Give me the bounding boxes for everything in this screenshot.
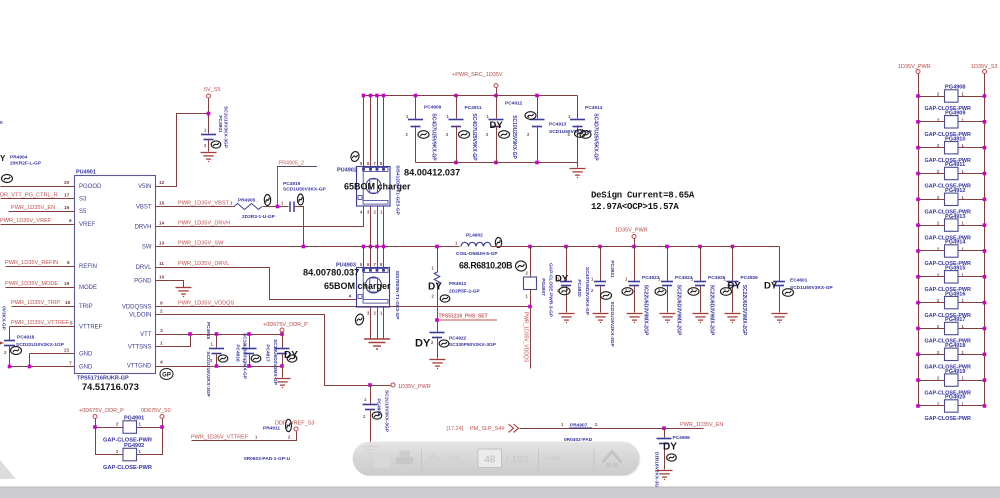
ground below PC4925 [693,314,709,323]
svg-text:6: 6 [69,218,72,224]
svg-text:PG4918: PG4918 [945,343,966,349]
svg-text:COIL-D68UH-5-GP: COIL-D68UH-5-GP [456,251,498,257]
svg-text:PWR_1D35V_DRVH: PWR_1D35V_DRVH [178,221,230,227]
svg-text:68.R6810.20B: 68.R6810.20B [459,261,512,271]
svg-text:REFIN: REFIN [79,264,97,270]
ground PGND [176,288,192,297]
svg-text:PC4919: PC4919 [283,181,301,187]
transistor Q2 PU4903 top wires from SW [363,247,365,268]
ground input cap bank [577,163,579,168]
svg-text:DDR_VREF_S3: DDR_VREF_S3 [275,421,314,427]
svg-text:2D2R5F-2-GP: 2D2R5F-2-GP [449,289,480,295]
svg-text:PC4906: PC4906 [673,435,691,441]
svg-text:PWR_1D35V_VREF: PWR_1D35V_VREF [0,218,52,224]
svg-text:84.00780.037: 84.00780.037 [303,268,359,278]
wire DRVL net [156,268,357,300]
ground PU4903 source [364,339,390,349]
svg-text:PG4916: PG4916 [945,291,966,297]
svg-text:SC22U6D3V9MX-2GP: SC22U6D3V9MX-2GP [676,285,682,336]
svg-text:5V_S5: 5V_S5 [204,87,221,93]
svg-text:DR_VTT_PG_CTRL_R: DR_VTT_PG_CTRL_R [0,193,58,199]
wire GND pin21 jog [30,353,75,355]
svg-text:Y: Y [0,154,6,163]
wire VTT rail [156,334,283,336]
node DDR_VREF_S3 [294,427,298,431]
wire VREF net [1,224,75,226]
svg-text:GAP-CLOSE-PWR: GAP-CLOSE-PWR [925,416,972,422]
svg-text:18: 18 [65,300,71,306]
component PG4919 gap-close-pwr [919,380,945,382]
capacitor PC4901 [201,135,216,140]
svg-text:20: 20 [64,180,70,186]
capacitor PC4924 [667,247,669,282]
svg-text:7: 7 [69,361,72,367]
svg-text:SC407U6D3V3KX-GP: SC407U6D3V3KX-GP [584,267,590,316]
PU4903 pin numbers [360,262,383,316]
svg-text:3: 3 [160,328,163,334]
component PG4911 gap-close-pwr [919,173,945,175]
eye marker PC4912 [499,131,510,139]
svg-text:PG4907: PG4907 [540,278,546,296]
svg-text:VTTSNS: VTTSNS [128,345,152,351]
svg-text:GP: GP [162,373,171,379]
wire S0 rail [137,419,163,455]
svg-text:PG4908: PG4908 [945,85,966,91]
capacitor PC4920 [566,247,568,282]
eye marker PL4902 [495,238,501,248]
eye marker EC4601 [783,289,794,297]
eye marker PC4916 [251,355,261,362]
wire VTTREF net [10,326,75,328]
component PG4907 gap-close-pwr [530,247,532,278]
svg-text:15: 15 [159,201,165,207]
svg-text:PWR_1D35V_SW: PWR_1D35V_SW [178,241,224,247]
svg-text:PWR_1D35V_VTTREF: PWR_1D35V_VTTREF [191,435,249,441]
eye marker PC4917 [287,355,297,362]
svg-text:74.51716.073: 74.51716.073 [82,382,139,392]
wire PC4919 to SW node [295,207,304,247]
svg-text:DY: DY [284,350,298,361]
eye marker PC4918 [11,347,22,355]
svg-text:SC330P50V2KX-3GP: SC330P50V2KX-3GP [449,342,497,348]
svg-text:PC4922: PC4922 [449,336,467,342]
eye marker PC4906 [667,454,677,461]
svg-text:GND: GND [79,365,93,371]
svg-text:PC4911: PC4911 [465,105,482,111]
svg-text:[17,24]: [17,24] [447,426,464,432]
svg-text:16: 16 [64,205,70,211]
eye marker PC4914 [580,131,591,139]
svg-text:DRVL: DRVL [136,265,153,271]
component PG4902 gap-close-pwr [123,448,137,461]
IC PU4901 TPS51716 regulator box [75,176,156,374]
wire DRVH net [156,207,364,227]
svg-text:MODE: MODE [79,285,97,291]
wire PU4902 source pins to SW [370,207,372,247]
wire DDR_P rail [96,419,124,455]
svg-text:12: 12 [159,180,165,186]
PU4901 left pin names [79,184,103,371]
capacitor PC4926 [732,247,734,282]
svg-text:PC4920: PC4920 [576,279,582,297]
eye marker PC4921 [601,292,612,300]
svg-text:PC4917: PC4917 [265,344,271,362]
svg-text:SCD22U10V2KX-1GP: SCD22U10V2KX-1GP [16,342,65,348]
wire PR4905 to PC4919 [263,206,289,208]
ground below PC4901 [201,153,217,162]
PU4902 pin numbers [360,161,383,215]
svg-text:4: 4 [160,360,163,366]
toolbar minus icon [545,457,561,460]
svg-text:4: 4 [349,294,352,300]
svg-text:SC22U6D3V9MX-2GP: SC22U6D3V9MX-2GP [709,285,715,336]
capacitor EC4601 [779,247,781,282]
svg-text:PWR_1D35V_EN: PWR_1D35V_EN [680,422,723,428]
wire PGND to ground [156,281,184,288]
component PG4909 gap-close-pwr [919,121,945,123]
svg-text:EC4601: EC4601 [790,278,808,284]
eye marker PC4919 [298,194,304,205]
junction dots output rail [435,245,439,249]
svg-text:SC4D7U25V5KX-GP: SC4D7U25V5KX-GP [593,113,599,161]
svg-text:GAP-CLOSE-PWR-3-GP: GAP-CLOSE-PWR-3-GP [548,263,554,318]
eye marker PR4905 [264,195,270,206]
svg-text:5: 5 [70,321,73,327]
svg-text:PC4916: PC4916 [235,344,241,362]
wire S5 net PWR_1D35V_EN [9,211,75,213]
wire VDDQSNS net [156,306,531,308]
component PG4908 gap-close-pwr [919,96,945,98]
svg-text:SCD1U16V2KX-3GP: SCD1U16V2KX-3GP [609,301,615,347]
ground below PC4926 [725,314,741,323]
svg-text:84.00412.037: 84.00412.037 [404,168,460,178]
svg-text:PG4919: PG4919 [945,369,966,375]
wire V5IN to 5V_S5 [156,114,209,187]
ground below PC4924 [660,314,676,323]
svg-text:PC4913: PC4913 [549,122,567,128]
svg-text:PR4912: PR4912 [449,281,467,287]
eye marker PR4912 [440,295,450,302]
wire 1D35V_S3 rail right [984,74,986,407]
toolbar arrow up icon [428,455,440,461]
eye marker PC4909 [418,131,429,139]
svg-text:8: 8 [67,260,70,266]
svg-text:20KR2F-L-GP: 20KR2F-L-GP [10,161,42,167]
svg-text:TPS51216_PHS_SET: TPS51216_PHS_SET [439,314,488,320]
page corner mark bottom left [0,460,16,479]
svg-text:TRIP: TRIP [79,304,93,310]
eye marker PC4925 [688,288,699,296]
svg-text:PR4911: PR4911 [263,426,280,432]
svg-text:DY: DY [764,281,778,292]
svg-text:PG4911: PG4911 [945,162,965,168]
svg-text:21: 21 [64,348,70,354]
svg-text:SW: SW [142,245,152,251]
PU4903 source wires to ground [370,308,372,339]
capacitor PC4919 bootstrap [290,202,294,213]
eye marker PC4911 [459,131,470,139]
svg-text:PG4902: PG4902 [124,443,144,449]
svg-text:PR4904: PR4904 [10,155,28,161]
svg-text:DY: DY [728,281,742,292]
junction SW bootstrap [302,245,306,249]
svg-text:GND: GND [79,352,93,358]
toolbar printer icon [396,451,413,470]
capacitor PC4916 [249,335,251,348]
toolbar divider 1 [421,449,423,469]
toolbar home icon [603,452,622,468]
svg-text:PU4902: PU4902 [337,168,357,174]
svg-text:SC10U6D3V3MX-GP: SC10U6D3V3MX-GP [242,333,248,380]
svg-text:1D35V_PWR: 1D35V_PWR [615,228,648,234]
capacitor PC4922 [437,321,439,332]
svg-text:VTTGND: VTTGND [127,364,152,370]
wire input bottom rail [416,162,578,164]
svg-text:PWR_1D35V_EN: PWR_1D35V_EN [11,205,55,211]
svg-text:2D2R3-1-U-GP: 2D2R3-1-U-GP [242,214,276,220]
svg-text:SC1U10V3KX-3GP: SC1U10V3KX-3GP [384,390,390,433]
svg-text:SIS412DN-T1-GE3-GP: SIS412DN-T1-GE3-GP [395,165,401,215]
node 5V_S5 [207,94,211,98]
toolbar plus icon [566,453,578,465]
eye marker PC4915 [218,355,228,362]
wire PGOOD net [1,186,75,188]
eye marker PC4926 [721,288,732,296]
eye marker PC4923 [622,288,633,296]
eye marker PC4924 [655,288,666,296]
svg-text:DY: DY [490,120,504,131]
junction dots SW at FET pins [362,245,366,249]
svg-text:PGOOD: PGOOD [79,184,102,190]
svg-text:0V3KX-GP: 0V3KX-GP [1,306,7,331]
ground below PC4906 [657,471,673,480]
svg-text:PG4915: PG4915 [945,266,966,272]
svg-text:10: 10 [159,275,165,281]
ground below PC4904 [363,447,379,456]
resistor PR4905 [234,204,262,210]
eye marker inductor value [515,260,528,272]
svg-text:PC4901: PC4901 [217,115,223,133]
svg-text:PC4914: PC4914 [585,105,603,111]
svg-text:DY: DY [428,282,442,293]
component PG4901 gap-close-pwr [123,421,137,434]
eye marker PU4902 [350,151,360,163]
wire VTTREF to PR4911 [192,432,297,441]
capacitor PC4918 [9,327,11,341]
svg-text:PL4902: PL4902 [466,233,483,239]
wire GND pin7 [9,366,75,368]
eye marker PC4913 [525,112,536,120]
stuffing-option eye near PR4904 [2,175,13,183]
svg-text:VBST: VBST [136,205,152,211]
eye marker PC4913 lower [575,130,586,138]
toolbar divider 3 [593,449,595,469]
eye marker PR4911 [286,419,292,431]
toolbar divider 2 [538,449,540,469]
svg-text:SC10U25V9KX-GP: SC10U25V9KX-GP [511,115,517,159]
svg-text:VTTREF: VTTREF [79,325,103,331]
toolbar page number box [478,449,502,468]
component PG4920 gap-close-pwr [919,405,945,407]
svg-text:PC4926: PC4926 [741,275,759,281]
svg-text:14: 14 [159,221,165,227]
svg-text:2: 2 [160,309,163,315]
junction VDDQS at PG4907 [528,305,532,309]
svg-text:DRVH: DRVH [135,225,152,231]
svg-text:PWR_1D35V_TRIP: PWR_1D35V_TRIP [11,300,60,306]
component PG4912 gap-close-pwr [919,199,945,201]
ground below PC4922 [430,360,446,369]
svg-text:PG4920: PG4920 [945,395,966,401]
capacitor PC4914 [577,96,579,119]
wire TRIP net [12,306,75,308]
junction dots GND net [8,365,12,369]
svg-text:PWR_1D35V_VDDQS: PWR_1D35V_VDDQS [178,301,235,307]
svg-text:DY: DY [415,338,431,350]
junction dots input rail [362,94,366,98]
svg-text:VREF: VREF [79,222,95,228]
ground VTT rail [275,379,291,388]
resistor PR4912 [437,247,439,273]
transistor Q1 PU4902 top drain wires [363,96,365,167]
svg-text:PR4905: PR4905 [238,198,256,204]
wire REFIN net [6,266,75,268]
eye marker GP at VTTGND [160,369,173,380]
capacitor PC4906 [664,429,666,438]
svg-text:17: 17 [64,193,70,199]
svg-text:S5: S5 [79,209,87,215]
capacitor PC4921 [600,247,602,282]
svg-text:PG4909: PG4909 [945,111,966,117]
eye marker PU4903 [354,313,365,326]
svg-text:1: 1 [160,341,163,347]
svg-text:19: 19 [64,281,70,287]
wire VLDOIN to 1D35V_PWR [156,315,392,386]
ground below PC4920 [559,314,575,323]
svg-text:VDDQSNS: VDDQSNS [122,305,152,311]
ground below EC4601 [772,314,788,323]
svg-text:SIS7800N-T1-GE3-GP: SIS7800N-T1-GE3-GP [394,271,400,321]
wire 1D35V_PWR rail right [918,74,920,407]
component PG4915 gap-close-pwr [919,276,945,278]
wire PM_SLP_S4# to PWR_1D35V_EN [520,428,704,430]
PU4901 right pin names [122,184,152,370]
svg-text:PG4901: PG4901 [124,416,144,422]
svg-text:+0D675V_DDR_P: +0D675V_DDR_P [79,408,124,414]
wire output rail 1D35V [492,246,780,248]
svg-text:PR4905_2: PR4905_2 [279,161,304,167]
svg-text:1D35V_PWR: 1D35V_PWR [398,384,431,390]
svg-text:12.97A<OCP>15.57A: 12.97A<OCP>15.57A [591,202,679,212]
svg-text:PWR_1D35V_DRVL: PWR_1D35V_DRVL [178,261,229,267]
svg-text:DeSign Current=8.65A: DeSign Current=8.65A [591,191,695,201]
svg-text:SCD1U50V3KX-GP: SCD1U50V3KX-GP [790,285,833,291]
component PG4910 gap-close-pwr [919,147,945,149]
svg-text:0D675V_S0: 0D675V_S0 [141,408,171,414]
svg-text:0R0603-PAD-1-GP-U: 0R0603-PAD-1-GP-U [244,456,291,462]
svg-text:0: 0 [0,120,3,126]
svg-text:VTT: VTT [140,332,152,338]
capacitor PC4912 [496,96,498,119]
component PG4916 gap-close-pwr [919,302,945,304]
svg-text:PG4912: PG4912 [945,188,966,194]
svg-text:PC4909: PC4909 [424,105,442,111]
svg-text:SCD1U50V3KX-GP: SCD1U50V3KX-GP [283,187,326,193]
svg-text:D1U16V2KX-3GP: D1U16V2KX-3GP [654,452,660,491]
svg-text:DY: DY [663,442,677,453]
capacitor PC4925 [700,247,702,282]
capacitor PC4923 [634,247,636,282]
svg-text:VLDOIN: VLDOIN [129,313,151,319]
eye marker PC4922 [439,340,449,347]
svg-text:PM_SLP_S4#: PM_SLP_S4# [470,426,505,432]
svg-text:+0D675V_DDR_P: +0D675V_DDR_P [263,322,308,328]
svg-text:PC4918: PC4918 [17,335,35,341]
svg-text:S3: S3 [79,197,87,203]
eye marker PC4901 [211,141,221,148]
eye marker PC4920 [559,287,570,295]
capacitor PC4917 [282,335,284,348]
svg-text:65BOM charger: 65BOM charger [324,281,391,291]
svg-text:SC1U10V3KX-3GP: SC1U10V3KX-3GP [223,106,229,149]
wire VTTGND rail [156,366,283,368]
svg-text:DY: DY [555,274,569,285]
svg-text:1D35V_PWR: 1D35V_PWR [898,64,931,70]
svg-text:PG4910: PG4910 [945,136,966,142]
svg-text:13: 13 [159,241,165,247]
svg-text:SC22U6D3V9MX-2GP: SC22U6D3V9MX-2GP [643,285,649,336]
capacitor PC4904 [370,386,372,405]
svg-text:PC4915: PC4915 [205,322,211,340]
svg-text:11: 11 [159,261,164,267]
svg-text:+PWR_SRC_1D35V: +PWR_SRC_1D35V [452,72,503,78]
component PG4918 gap-close-pwr [919,354,945,356]
svg-text:PGND: PGND [134,279,152,285]
page bottom edge strip [0,487,1000,498]
ground below PC4923 [627,314,643,323]
svg-text:GAP-CLOSE-PWR: GAP-CLOSE-PWR [103,465,152,471]
ground below PC4921 [593,314,609,323]
junction PC4906 tap [662,426,666,430]
svg-text:/ 103: / 103 [506,455,529,466]
wire VTTGND ground drop [282,367,284,378]
component PG4914 gap-close-pwr [919,250,945,252]
toolbar save icon [374,457,390,468]
capacitor PC4909 [415,96,417,119]
eye marker PC4904 [372,412,382,419]
transistor Q2 PU4903 body [357,268,390,308]
wire VBST net [156,206,235,208]
capacitor PC4913 [537,96,539,119]
capacitor PC4915 [216,335,218,348]
svg-text:PWR_1D35V_VBST: PWR_1D35V_VBST [178,201,230,207]
svg-text:PG4917: PG4917 [945,317,966,323]
wire VTTSNS jog [156,335,191,347]
svg-text:TPS51716RUKR-GP: TPS51716RUKR-GP [77,376,129,382]
svg-text:V5IN: V5IN [138,184,151,190]
capacitor PC4911 [456,96,458,119]
junction PC4904 tap [368,383,372,387]
svg-text:SC4D7U25V9KX-GP: SC4D7U25V9KX-GP [431,113,437,161]
node +0D675V_DDR_P upper [280,328,284,332]
transistor Q1 PU4902 body [357,167,391,207]
svg-text:PWR_1D35V_VDDQS: PWR_1D35V_VDDQS [523,312,529,363]
component PG4917 gap-close-pwr [919,328,945,330]
svg-text:PC4912: PC4912 [505,101,523,107]
svg-text:PU4901: PU4901 [76,170,96,176]
svg-text:SC4D7U25V9KX-GP: SC4D7U25V9KX-GP [471,113,477,161]
svg-text:PWR_1D35V_REFIN: PWR_1D35V_REFIN [5,260,58,266]
